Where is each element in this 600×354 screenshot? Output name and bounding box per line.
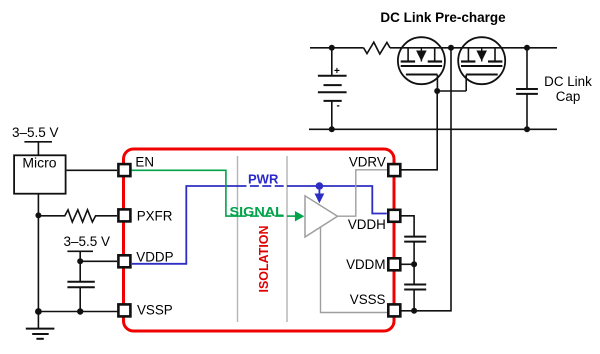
svg-text:VDDP: VDDP — [136, 249, 173, 264]
ground — [37, 312, 39, 329]
wire VSSS pin to chain — [402, 310, 415, 312]
wire mid node down to VSSS row — [414, 48, 451, 311]
svg-text:EN: EN — [135, 155, 154, 170]
node ground junction — [35, 308, 42, 315]
capacitor C2 (VDDH-VDDM) — [404, 236, 426, 238]
wire Micro to EN — [67, 169, 117, 171]
svg-text:DC Link Pre-charge: DC Link Pre-charge — [380, 10, 506, 25]
transistor Q1 (pre-charge MOSFET) — [398, 37, 445, 91]
wire supply to VDDP — [79, 251, 81, 261]
svg-text:VSSS: VSSS — [350, 292, 386, 307]
pin VSSP — [118, 304, 130, 316]
wire blue arrow down to amp — [318, 186, 320, 195]
chip body U1 (isolated gate driver, red outline) — [124, 149, 395, 331]
svg-text:VDRV: VDRV — [349, 155, 386, 170]
resistor R1 (PXFR series) — [38, 210, 117, 222]
svg-text:+: + — [334, 66, 340, 77]
svg-text:Micro: Micro — [22, 155, 56, 171]
isolation barrier line left — [237, 156, 239, 322]
isolation barrier line right — [286, 156, 288, 322]
wire to VDDP pin — [80, 260, 117, 262]
node battery bottom — [329, 126, 335, 132]
node gate junction — [434, 88, 440, 94]
wire PWR (blue) from VDDP up and across barrier — [132, 186, 238, 264]
node blue junction on PWR wire — [316, 182, 324, 190]
wire supply to Micro — [37, 142, 39, 156]
capacitor C1 (VDDP decoupling) — [79, 261, 81, 281]
node mid rail junction — [448, 45, 454, 51]
svg-text:-: - — [337, 101, 340, 112]
wire SIGNAL (green) from EN across barrier — [132, 170, 238, 216]
node VDDP tap — [77, 258, 83, 264]
pin VDRV — [388, 164, 400, 176]
op-amp driver (gray triangle) — [305, 196, 338, 237]
svg-text:VDDM: VDDM — [346, 257, 385, 272]
svg-text:PXFR: PXFR — [137, 209, 173, 224]
svg-text:PWR: PWR — [248, 172, 279, 187]
capacitor C4 (DC Link Cap) — [526, 48, 528, 89]
node VDDM chain — [411, 261, 417, 267]
transistor Q2 (pre-charge MOSFET) — [458, 37, 505, 91]
wire Micro bottom down to ground rail — [37, 194, 39, 312]
pin VDDM — [388, 258, 400, 270]
pin VDDH — [388, 210, 400, 222]
svg-text:VDDH: VDDH — [348, 217, 386, 232]
wire gates down to VDRV — [402, 91, 438, 170]
pin VDDP — [118, 255, 130, 267]
wire VDDH to cap chain — [402, 216, 415, 237]
node C1 bottom — [77, 308, 83, 314]
pin VSSS — [388, 304, 400, 316]
wire amp bottom to VSSS (gray) — [321, 227, 389, 312]
wire VSSP row — [38, 311, 118, 313]
wire gate tie Q2 to Q1 — [437, 90, 466, 92]
svg-text:VSSP: VSSP — [137, 303, 173, 318]
battery BT1 — [331, 48, 333, 76]
svg-text:3–5.5 V: 3–5.5 V — [64, 234, 111, 249]
svg-text:DC Link: DC Link — [544, 74, 592, 89]
supply rail bar (VDDP) — [67, 250, 93, 252]
wire top rail — [310, 47, 364, 49]
node battery top — [329, 45, 335, 51]
node VSSS chain — [411, 308, 417, 314]
node DC link cap top — [524, 45, 530, 51]
pin EN — [118, 164, 130, 176]
node DC link cap bottom — [524, 126, 530, 132]
svg-text:3–5.5 V: 3–5.5 V — [12, 125, 59, 140]
capacitor C3 (VDDM-VSSS) — [404, 284, 426, 286]
svg-text:Cap: Cap — [556, 89, 581, 104]
pin PXFR — [118, 209, 130, 221]
node junction at PXFR tap — [35, 212, 41, 218]
svg-text:ISOLATION: ISOLATION — [256, 226, 271, 293]
wire bottom rail — [309, 128, 557, 130]
resistor R2 (pre-charge) — [364, 42, 390, 54]
supply rail bar (micro) — [24, 141, 52, 143]
Micro block — [14, 155, 66, 193]
wire VDDM pin to chain — [402, 263, 415, 265]
wire amp output to VDRV (gray) — [338, 170, 389, 216]
